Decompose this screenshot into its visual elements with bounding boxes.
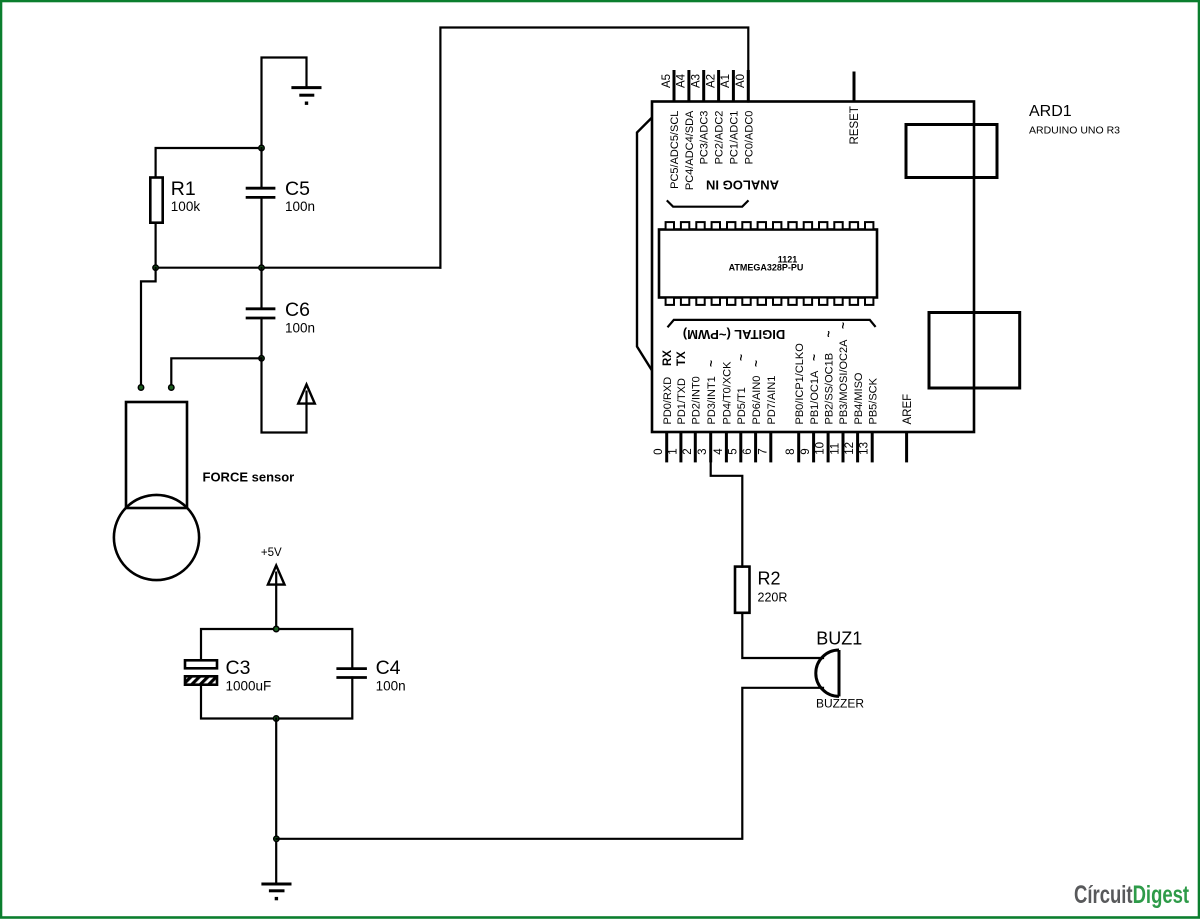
svg-text:A0: A0 bbox=[735, 74, 747, 88]
power symbol +5V arrow (near C6) bbox=[298, 385, 315, 404]
pin A0 stub bbox=[747, 70, 750, 102]
wire buzzer plus to R2 bottom bbox=[742, 613, 823, 658]
wire C5 lower lead bbox=[260, 197, 262, 267]
pin A5 stub bbox=[673, 70, 676, 102]
svg-text:0: 0 bbox=[653, 448, 665, 454]
svg-text:8: 8 bbox=[785, 448, 797, 454]
svg-text:C4: C4 bbox=[376, 657, 401, 679]
pin 5 stub bbox=[739, 432, 742, 463]
pin 9 stub bbox=[812, 432, 815, 463]
svg-text:~: ~ bbox=[749, 360, 763, 367]
svg-text:RESET: RESET bbox=[849, 106, 861, 144]
node junction R1-bottom / sensor bbox=[153, 265, 158, 270]
pin 0 stub bbox=[665, 432, 668, 463]
ground GND2 bbox=[261, 884, 291, 900]
pin 11 stub bbox=[842, 432, 845, 463]
force sensor body bbox=[114, 402, 199, 580]
pin 10 stub bbox=[827, 432, 830, 463]
svg-text:10: 10 bbox=[815, 442, 827, 455]
svg-text:PD1/TXD: PD1/TXD bbox=[676, 378, 688, 425]
svg-text:~: ~ bbox=[704, 360, 718, 367]
IC pads bottom row bbox=[666, 298, 874, 305]
pin 6 stub bbox=[754, 432, 757, 463]
svg-text:11: 11 bbox=[830, 443, 842, 455]
svg-text:PC0/ADC0: PC0/ADC0 bbox=[743, 111, 755, 165]
svg-text:PD7/AIN1: PD7/AIN1 bbox=[766, 376, 778, 425]
wire mid node horizontal bbox=[156, 267, 441, 269]
svg-text:100n: 100n bbox=[376, 679, 406, 694]
pin A1 stub bbox=[732, 70, 735, 102]
svg-text:4: 4 bbox=[713, 448, 725, 455]
svg-text:100n: 100n bbox=[285, 321, 315, 336]
pin 2 stub bbox=[694, 432, 697, 463]
pin 3 stub bbox=[709, 432, 712, 463]
node junction +5V rail bbox=[274, 626, 279, 631]
wire R1 top to C5 top bbox=[156, 148, 263, 178]
capacitor C3 (polarized 1000uF) bbox=[185, 660, 217, 684]
pin 4 stub bbox=[725, 432, 728, 463]
IC U1 ATMEGA328P-PU body bbox=[659, 230, 877, 298]
svg-text:PD2/INT0: PD2/INT0 bbox=[691, 376, 703, 424]
logo CircuitDigest bbox=[1074, 880, 1190, 908]
pin A4 stub bbox=[687, 70, 690, 102]
svg-text:PB1/OC1A: PB1/OC1A bbox=[809, 370, 821, 424]
node junction bottom rail bbox=[274, 836, 279, 841]
svg-text:R1: R1 bbox=[171, 178, 196, 200]
wire C3/C4 top rail bbox=[201, 629, 352, 668]
wire C3/C4 bottom to ground GND2 bbox=[275, 719, 277, 884]
wire +5V to C3/C4 top bbox=[275, 585, 277, 629]
svg-text:13: 13 bbox=[859, 442, 871, 455]
svg-text:A3: A3 bbox=[691, 74, 703, 88]
node junction C5/C6 mid bbox=[259, 265, 264, 270]
ARD1 USB connector outline bbox=[906, 125, 997, 178]
svg-text:PB4/MISO: PB4/MISO bbox=[853, 372, 865, 424]
ARD1 left edge notch bbox=[637, 118, 652, 371]
svg-text:ARD1: ARD1 bbox=[1029, 103, 1072, 120]
ground GND1 bbox=[291, 88, 321, 105]
svg-text:~: ~ bbox=[734, 354, 748, 361]
wire C5 top to ground GND1 bbox=[262, 58, 307, 149]
pin AREF stub bbox=[905, 432, 908, 463]
svg-text:12: 12 bbox=[844, 442, 856, 455]
svg-text:PD5/T1: PD5/T1 bbox=[736, 387, 748, 424]
wire sensor right terminal bbox=[171, 358, 261, 386]
svg-text:9: 9 bbox=[800, 448, 812, 454]
svg-text:DIGITAL (~PWM): DIGITAL (~PWM) bbox=[683, 327, 785, 342]
resistor R2 bbox=[735, 567, 750, 613]
wire R1 bottom bbox=[155, 223, 157, 268]
svg-text:PB5/SCK: PB5/SCK bbox=[867, 377, 879, 424]
svg-text:~: ~ bbox=[836, 322, 850, 329]
svg-text:6: 6 bbox=[742, 448, 754, 454]
svg-text:PC1/ADC1: PC1/ADC1 bbox=[728, 111, 740, 165]
svg-text:7: 7 bbox=[757, 448, 769, 454]
pin RESET stub bbox=[853, 72, 856, 102]
ARD1 power connector outline bbox=[929, 313, 1020, 389]
svg-text:PC3/ADC3: PC3/ADC3 bbox=[699, 111, 711, 165]
svg-text:ANALOG IN: ANALOG IN bbox=[706, 178, 779, 193]
capacitor C5 bbox=[246, 188, 276, 197]
svg-text:ATMEGA328P-PU: ATMEGA328P-PU bbox=[729, 263, 804, 273]
svg-text:PB2/SS/OC1B: PB2/SS/OC1B bbox=[823, 353, 835, 425]
node junction C5-top / R1 / GND net bbox=[259, 145, 264, 150]
svg-text:BUZZER: BUZZER bbox=[816, 697, 864, 711]
pin 8 stub bbox=[797, 432, 800, 463]
capacitor C6 bbox=[246, 309, 276, 318]
buzzer BUZ1 bbox=[816, 650, 839, 696]
pin 12 stub bbox=[856, 432, 859, 463]
wire bottom rail to buzzer minus bbox=[276, 688, 823, 839]
pin 1 stub bbox=[679, 432, 682, 463]
bracket ANALOG IN bbox=[667, 200, 749, 206]
svg-text:C5: C5 bbox=[285, 178, 310, 200]
wire mid node to Arduino A0 bbox=[440, 28, 748, 268]
pin 13 stub bbox=[871, 432, 874, 463]
svg-text:100k: 100k bbox=[171, 199, 201, 214]
svg-text:100n: 100n bbox=[285, 199, 315, 214]
svg-text:2: 2 bbox=[682, 448, 694, 454]
node sensor terminal right bbox=[169, 385, 174, 390]
svg-text:~: ~ bbox=[807, 354, 821, 361]
resistor R1 bbox=[150, 178, 162, 223]
svg-text:C6: C6 bbox=[285, 299, 310, 321]
pin 7 stub bbox=[769, 432, 772, 463]
svg-text:~: ~ bbox=[821, 330, 835, 337]
svg-text:A4: A4 bbox=[676, 73, 688, 88]
svg-text:ARDUINO UNO R3: ARDUINO UNO R3 bbox=[1029, 125, 1120, 137]
svg-text:3: 3 bbox=[697, 448, 709, 454]
svg-text:PC5/ADC5/SCL: PC5/ADC5/SCL bbox=[669, 111, 681, 189]
svg-text:A5: A5 bbox=[661, 74, 673, 88]
node junction GND rail bbox=[274, 716, 279, 721]
wire C5 upper lead bbox=[260, 148, 262, 187]
pin A2 stub bbox=[717, 70, 720, 102]
svg-text:BUZ1: BUZ1 bbox=[816, 629, 862, 649]
pin A3 stub bbox=[702, 70, 705, 102]
svg-text:PC4/ADC4/SDA: PC4/ADC4/SDA bbox=[684, 110, 696, 190]
svg-text:+5V: +5V bbox=[261, 547, 282, 559]
svg-text:R2: R2 bbox=[758, 569, 781, 589]
svg-text:RX: RX bbox=[662, 350, 674, 366]
svg-text:1: 1 bbox=[667, 448, 679, 454]
svg-text:PD0/RXD: PD0/RXD bbox=[662, 377, 674, 425]
node junction C6 bottom bbox=[259, 356, 264, 361]
bracket DIGITAL (~PWM) bbox=[668, 320, 876, 327]
svg-text:TX: TX bbox=[676, 351, 688, 366]
wire R2 top to Arduino pin 3 bbox=[711, 458, 743, 567]
node sensor terminal left bbox=[138, 385, 143, 390]
IC pads top row bbox=[666, 222, 874, 229]
svg-text:1000uF: 1000uF bbox=[226, 679, 272, 694]
svg-text:PD4/T0/XCK: PD4/T0/XCK bbox=[722, 361, 734, 425]
svg-text:PB3/MOSI/OC2A: PB3/MOSI/OC2A bbox=[838, 339, 850, 425]
wire C6 lower lead bbox=[260, 318, 262, 358]
capacitor C4 bbox=[336, 669, 367, 678]
svg-text:PB0/ICP1/CLKO: PB0/ICP1/CLKO bbox=[794, 343, 806, 425]
wire C6 node to +5V arrow 1 bbox=[262, 358, 307, 432]
svg-text:AREF: AREF bbox=[902, 394, 914, 425]
svg-text:5: 5 bbox=[727, 448, 739, 454]
svg-text:A1: A1 bbox=[720, 74, 732, 88]
svg-text:220R: 220R bbox=[758, 591, 788, 605]
svg-text:C3: C3 bbox=[226, 657, 251, 679]
svg-text:PD3/INT1: PD3/INT1 bbox=[706, 376, 718, 424]
svg-text:FORCE sensor: FORCE sensor bbox=[203, 470, 295, 485]
svg-text:CírcuitDigest: CírcuitDigest bbox=[1074, 880, 1190, 908]
svg-text:A2: A2 bbox=[705, 74, 717, 88]
wire C3/C4 bottom rail bbox=[201, 678, 352, 719]
svg-text:PC2/ADC2: PC2/ADC2 bbox=[714, 111, 726, 165]
wire C6 upper lead bbox=[260, 268, 262, 309]
svg-text:PD6/AIN0: PD6/AIN0 bbox=[751, 376, 763, 425]
op module ARD1 Arduino Uno body bbox=[652, 102, 974, 433]
wire sensor left terminal bbox=[141, 268, 156, 387]
